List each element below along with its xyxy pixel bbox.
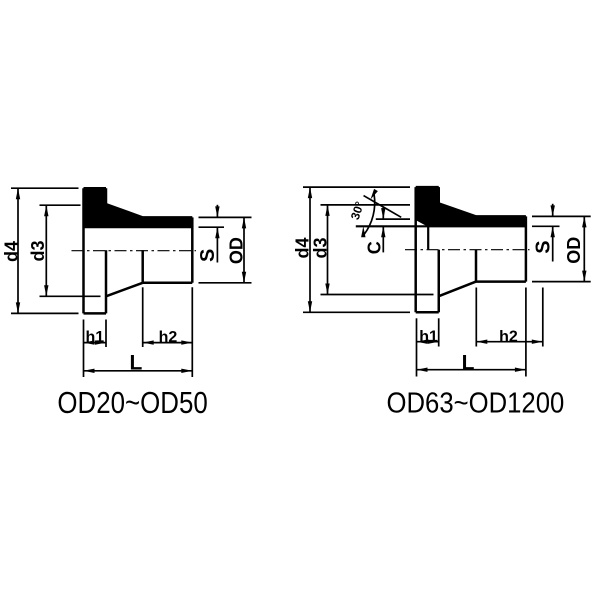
svg-text:OD: OD xyxy=(564,237,584,264)
svg-text:L: L xyxy=(462,352,475,375)
svg-text:h2: h2 xyxy=(159,329,178,346)
svg-text:d3: d3 xyxy=(28,240,48,261)
svg-text:d4: d4 xyxy=(293,237,313,258)
svg-text:S: S xyxy=(533,240,555,253)
svg-text:L: L xyxy=(129,351,142,374)
svg-text:C: C xyxy=(365,241,385,254)
svg-text:OD63~OD1200: OD63~OD1200 xyxy=(387,388,565,420)
svg-text:h2: h2 xyxy=(499,328,518,345)
svg-text:h1: h1 xyxy=(85,329,104,346)
svg-text:S: S xyxy=(197,249,219,262)
svg-text:d4: d4 xyxy=(2,241,22,262)
svg-text:d3: d3 xyxy=(311,237,331,258)
svg-text:OD20~OD50: OD20~OD50 xyxy=(57,385,207,420)
svg-text:h1: h1 xyxy=(419,328,438,345)
svg-text:OD: OD xyxy=(226,237,246,264)
